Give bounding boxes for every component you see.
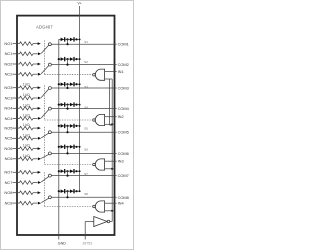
svg-text:COM5: COM5 (118, 130, 129, 135)
svg-text:NC1: NC1 (5, 51, 13, 56)
svg-text:COM2: COM2 (118, 62, 129, 67)
svg-text:S7: S7 (84, 172, 88, 176)
svg-text:NO2: NO2 (4, 61, 12, 66)
svg-text:NO5: NO5 (4, 126, 12, 131)
svg-text:NO6: NO6 (4, 146, 12, 151)
svg-text:COM4: COM4 (118, 106, 130, 111)
svg-text:GND: GND (58, 242, 66, 246)
svg-text:NO8: NO8 (4, 190, 12, 195)
svg-text:S6: S6 (84, 148, 88, 152)
svg-text:NO3: NO3 (4, 85, 12, 90)
svg-text:IN2: IN2 (118, 114, 124, 119)
svg-text:1 kΩ: 1 kΩ (23, 93, 30, 97)
svg-text:IN4: IN4 (118, 201, 125, 206)
svg-text:NC2: NC2 (5, 72, 13, 77)
svg-text:S1: S1 (84, 40, 88, 44)
svg-text:1 kΩ: 1 kΩ (23, 144, 30, 148)
svg-text:COM6: COM6 (118, 151, 129, 156)
svg-text:IN3: IN3 (118, 159, 124, 164)
svg-text:1 kΩ: 1 kΩ (23, 133, 30, 137)
svg-text:NC5: NC5 (5, 136, 13, 141)
svg-text:ADG467: ADG467 (36, 24, 53, 29)
svg-text:NC7: NC7 (5, 180, 13, 185)
svg-text:S4: S4 (84, 105, 88, 109)
svg-text:NC3: NC3 (5, 95, 13, 100)
svg-text:1 kΩ: 1 kΩ (23, 83, 30, 87)
svg-text:1 kΩ: 1 kΩ (23, 103, 30, 107)
svg-text:28753: 28753 (82, 241, 92, 245)
svg-text:NO4: NO4 (4, 106, 13, 111)
svg-text:NO1: NO1 (4, 41, 12, 46)
svg-text:1 kΩ: 1 kΩ (23, 154, 30, 158)
svg-text:NC6: NC6 (5, 156, 13, 161)
svg-text:COM7: COM7 (118, 173, 129, 178)
svg-text:COM8: COM8 (118, 195, 129, 200)
svg-text:S5: S5 (84, 127, 88, 131)
svg-text:S3: S3 (84, 85, 88, 89)
svg-text:S2: S2 (84, 60, 88, 64)
svg-text:COM3: COM3 (118, 86, 129, 91)
svg-text:S8: S8 (84, 192, 88, 196)
svg-text:V+: V+ (77, 2, 81, 6)
svg-text:1 kΩ: 1 kΩ (23, 123, 30, 127)
svg-text:NC8: NC8 (5, 201, 13, 206)
svg-text:1 kΩ: 1 kΩ (23, 113, 30, 117)
svg-text:COM1: COM1 (118, 42, 129, 47)
svg-text:NC4: NC4 (5, 116, 14, 121)
svg-text:NO7: NO7 (4, 170, 12, 175)
svg-text:IN1: IN1 (118, 69, 124, 74)
